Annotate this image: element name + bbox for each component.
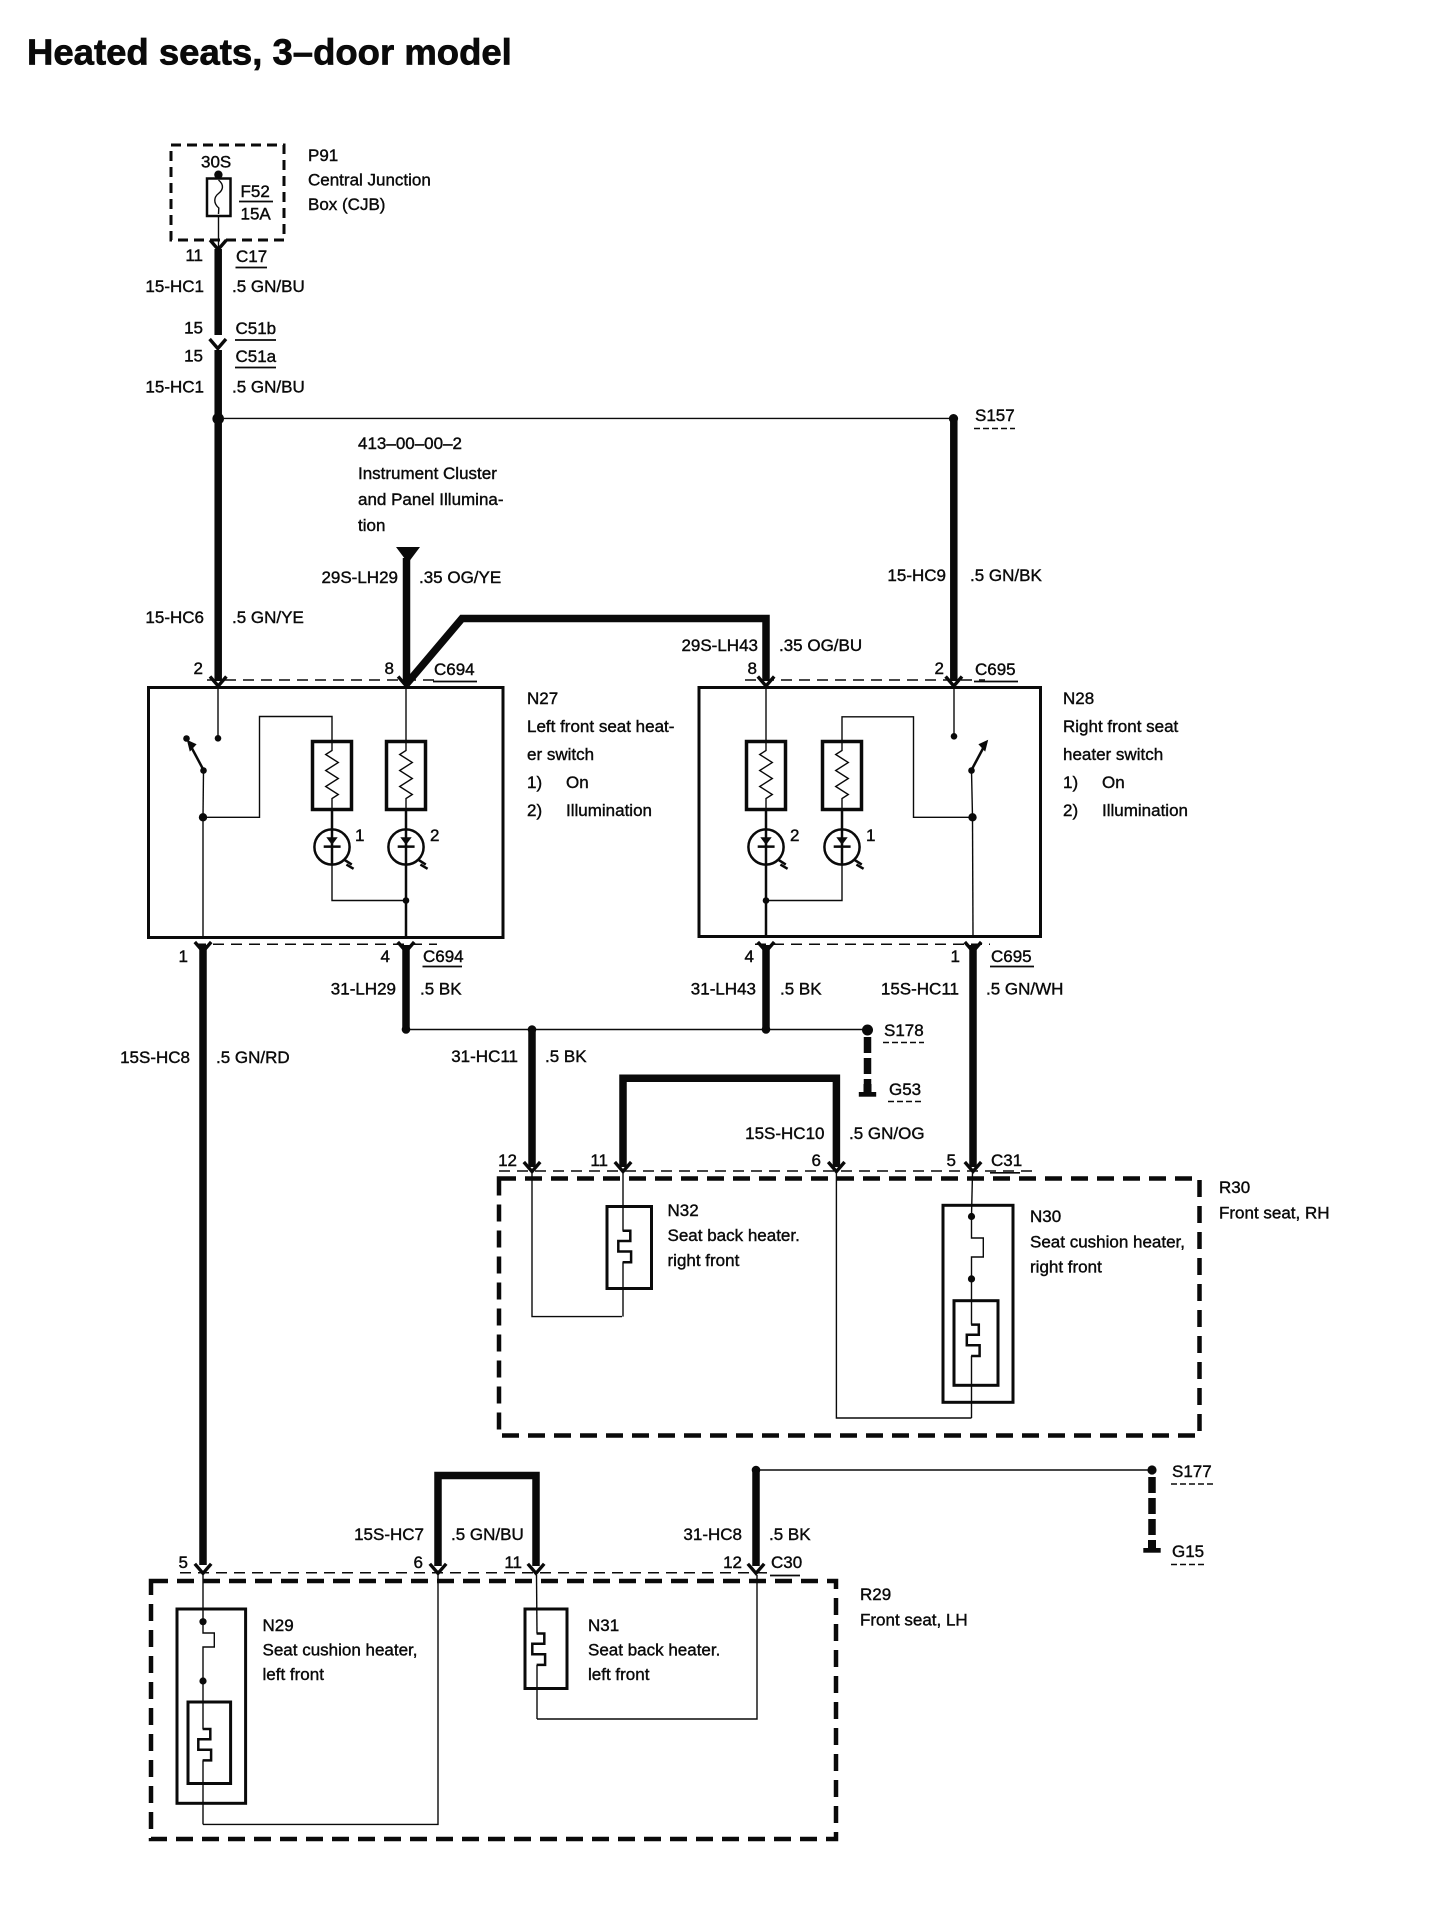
label 30S [201, 153, 231, 172]
svg-text:.5 GN/BU: .5 GN/BU [232, 277, 305, 296]
wire label 15-HC1 .5 GN/BU [145, 277, 304, 296]
junction node 31-HC8 [752, 1466, 761, 1475]
wire label 15S-HC10 .5 GN/OG [745, 1124, 924, 1143]
N27 internal wire switch to illumination resistor [203, 717, 332, 818]
svg-text:5: 5 [947, 1151, 956, 1170]
pin label 15 / connector C51a [184, 347, 277, 368]
svg-text:C694: C694 [423, 947, 464, 966]
connector C694 line (top of N27) [207, 679, 441, 681]
wire node line to S177 [756, 1469, 1148, 1471]
svg-text:.5 GN/BK: .5 GN/BK [970, 566, 1042, 585]
svg-text:2): 2) [1063, 801, 1078, 820]
N27 indicator lamp 2 [388, 829, 427, 868]
wire N29 to C30 pin 6 [203, 1575, 438, 1824]
svg-text:Front seat, RH: Front seat, RH [1219, 1204, 1330, 1223]
junction node below N28 pin 4 [762, 1025, 771, 1034]
N28 indicator lamp 1 [824, 829, 863, 868]
pin label 5 [179, 1553, 188, 1572]
wire 29S-LH43 (branch to N28 pin 8) [407, 619, 767, 685]
connector C30 pin 11 arrow [528, 1564, 544, 1574]
svg-text:31-HC8: 31-HC8 [683, 1525, 742, 1544]
connector label C17 [236, 247, 268, 268]
splice S157 [949, 406, 1015, 429]
connector label C695 [990, 947, 1034, 967]
N30 text label [1030, 1207, 1185, 1277]
svg-text:N28: N28 [1063, 689, 1094, 708]
N31 text label [588, 1616, 720, 1684]
svg-text:15S-HC7: 15S-HC7 [354, 1525, 424, 1544]
wire 15-HC1 (C51a to splice) [214, 350, 222, 418]
svg-text:Right front seat: Right front seat [1063, 717, 1179, 736]
svg-text:Front seat, LH: Front seat, LH [860, 1611, 968, 1630]
svg-text:.5 GN/YE: .5 GN/YE [232, 608, 304, 627]
svg-text:On: On [566, 773, 589, 792]
svg-text:1): 1) [527, 773, 542, 792]
N28 wire resistor to lamp 2 [765, 810, 768, 865]
svg-text:15A: 15A [241, 205, 272, 224]
wire N31 to C30 pin 12 [537, 1575, 757, 1719]
N27 text label [527, 689, 674, 820]
connector C694 line (bottom of N27) [195, 943, 437, 945]
seat cushion heater right front N30 [943, 1205, 1013, 1418]
svg-text:.5 BK: .5 BK [769, 1525, 811, 1544]
junction node [212, 413, 224, 425]
pin label 11 [590, 1151, 608, 1170]
N27 wire lamp 1 to junction [332, 865, 406, 901]
svg-text:N29: N29 [263, 1616, 294, 1635]
wire 15S-HC11 (N28 pin 1 to C31 pin 5) [969, 945, 977, 1167]
svg-text:.5 GN/WH: .5 GN/WH [986, 980, 1063, 999]
svg-text:2: 2 [790, 826, 799, 845]
wire label 29S-LH29 .35 OG/YE [321, 568, 501, 587]
svg-text:Seat cushion heater,: Seat cushion heater, [263, 1641, 418, 1660]
pin label 8 [748, 659, 757, 678]
svg-text:N30: N30 [1030, 1207, 1061, 1226]
connector C694 pin 1 arrow [195, 942, 211, 952]
svg-text:G53: G53 [889, 1080, 921, 1099]
splice S177 [1147, 1462, 1213, 1484]
off-page connector arrow from instrument cluster [396, 547, 420, 563]
connector label C30 [770, 1553, 802, 1576]
svg-text:and Panel Illumina-: and Panel Illumina- [358, 490, 504, 509]
svg-text:15S-HC10: 15S-HC10 [745, 1124, 824, 1143]
wire 31-HC11 (splice to C31 pin 12) [528, 1030, 536, 1168]
N29 text label [263, 1616, 418, 1684]
wire C31 pin 5 to N30 [972, 1173, 973, 1216]
svg-text:F52: F52 [241, 182, 270, 201]
wire label 31-HC11 .5 BK [451, 1047, 587, 1066]
R30 text label [1219, 1178, 1330, 1223]
wire S177 to ground (dashed) [1148, 1477, 1156, 1540]
svg-text:4: 4 [745, 947, 754, 966]
svg-text:1: 1 [179, 947, 188, 966]
wire label 15S-HC7 .5 GN/BU [354, 1525, 524, 1544]
connector C695 line (top of N28) [745, 679, 985, 681]
svg-text:right front: right front [1030, 1258, 1102, 1277]
connector C695 pin 8 arrow [758, 677, 774, 687]
connector C695 pin 2 arrow [946, 677, 962, 687]
N28 indicator lamp 2 [748, 829, 787, 868]
wire S178 to ground (dashed) [864, 1037, 872, 1084]
svg-text:30S: 30S [201, 153, 231, 172]
connector C31 pin 11 arrow [615, 1162, 631, 1172]
wire label 15S-HC8 .5 GN/RD [120, 1048, 290, 1067]
wire 15S-HC8 (N27 pin 1 to C30 pin 5) [199, 945, 207, 1565]
connector C694 pin 2 arrow [210, 677, 226, 687]
connector C30 line [180, 1572, 768, 1574]
wire node line to S157 [224, 417, 949, 419]
svg-text:C51b: C51b [236, 319, 277, 338]
svg-text:N31: N31 [588, 1616, 619, 1635]
connector C30 pin 6 arrow [430, 1564, 446, 1574]
svg-text:Left front seat heat-: Left front seat heat- [527, 717, 674, 736]
wire label 29S-LH43 .35 OG/BU [681, 636, 862, 655]
svg-text:1): 1) [1063, 773, 1078, 792]
N28 lamp junction node [763, 897, 770, 904]
wire 15S-HC7 (C30 pin 6 to pin 11) [438, 1476, 536, 1567]
P91 CJB text label [308, 146, 431, 214]
svg-text:2): 2) [527, 801, 542, 820]
svg-text:.5 GN/OG: .5 GN/OG [849, 1124, 925, 1143]
svg-text:31-LH29: 31-LH29 [331, 980, 396, 999]
svg-text:31-LH43: 31-LH43 [691, 980, 756, 999]
svg-text:P91: P91 [308, 146, 338, 165]
svg-text:On: On [1102, 773, 1125, 792]
title [27, 32, 512, 73]
pin label 6 [414, 1553, 423, 1572]
svg-text:1: 1 [355, 826, 364, 845]
pin label 5 [947, 1151, 956, 1170]
svg-text:.5 BK: .5 BK [780, 980, 822, 999]
svg-text:.5 GN/BU: .5 GN/BU [232, 378, 305, 397]
wire C31 pin 12 to N32 [532, 1173, 622, 1317]
connector C31 pin 5 arrow [965, 1162, 981, 1172]
svg-text:C31: C31 [991, 1151, 1022, 1170]
connector C30 pin 12 arrow [748, 1564, 764, 1574]
N28 wire lamp 2 to pin 4 [765, 865, 768, 937]
N27 wire lamp 2 to pin 4 [405, 865, 408, 937]
lamp label 1 [355, 826, 364, 845]
svg-text:2: 2 [194, 659, 203, 678]
svg-text:413–00–00–2: 413–00–00–2 [358, 434, 462, 453]
svg-text:S178: S178 [884, 1021, 924, 1040]
svg-text:C51a: C51a [236, 347, 277, 366]
front seat LH box R29 (dashed) [151, 1581, 836, 1839]
N27 pin 8 internal wire [405, 687, 407, 742]
N28 pin 8 internal wire [765, 687, 767, 742]
svg-text:12: 12 [498, 1151, 517, 1170]
wire C31 pin 6 to N30 [836, 1173, 971, 1418]
R29 text label [860, 1585, 968, 1630]
svg-text:31-HC11: 31-HC11 [451, 1047, 518, 1066]
svg-text:S157: S157 [975, 406, 1015, 425]
svg-text:Box (CJB): Box (CJB) [308, 195, 385, 214]
svg-text:.5 GN/BU: .5 GN/BU [451, 1525, 524, 1544]
svg-text:S177: S177 [1172, 1462, 1212, 1481]
svg-text:left front: left front [588, 1665, 650, 1684]
svg-text:15S-HC8: 15S-HC8 [120, 1048, 190, 1067]
svg-text:11: 11 [185, 246, 203, 265]
connector C31 pin 6 arrow [828, 1162, 844, 1172]
svg-text:8: 8 [385, 659, 394, 678]
connector C695 pin 1 arrow [965, 942, 981, 952]
svg-text:1: 1 [951, 947, 960, 966]
connector label C694 [423, 947, 464, 967]
N27 switch [183, 735, 207, 817]
connector C31 line [499, 1170, 1034, 1172]
right front seat heater switch N28 box [699, 688, 1041, 937]
wire C31 pin 11 to N32 [622, 1173, 624, 1231]
connector C17 pin 11 arrow [210, 240, 226, 250]
wire label 15-HC9 .5 GN/BK [887, 566, 1042, 585]
svg-text:.35 OG/YE: .35 OG/YE [419, 568, 501, 587]
svg-text:12: 12 [723, 1553, 742, 1572]
N27 pin 2 internal stub [215, 687, 222, 742]
pin label 1 [951, 947, 960, 966]
svg-text:G15: G15 [1172, 1542, 1204, 1561]
pin label 4 [745, 947, 754, 966]
svg-text:15: 15 [184, 347, 203, 366]
junction node below N27 pin 4 [402, 1025, 411, 1034]
svg-text:1: 1 [866, 826, 875, 845]
N32 text label [668, 1201, 800, 1270]
pin label 6 [812, 1151, 821, 1170]
svg-text:R30: R30 [1219, 1178, 1250, 1197]
svg-text:6: 6 [414, 1553, 423, 1572]
svg-text:.5 BK: .5 BK [545, 1047, 587, 1066]
N28 switch [968, 740, 988, 817]
pin label 15 / connector C51b [184, 319, 276, 341]
wire 15-HC6 (splice to N27 pin 2) [214, 418, 222, 681]
N28 resistor (illumination) [823, 742, 862, 810]
pin label 11 [504, 1553, 522, 1572]
wire ground bus line to S178 [406, 1029, 863, 1031]
pin label 2 [194, 659, 203, 678]
svg-text:C17: C17 [236, 247, 267, 266]
N28 text label [1063, 689, 1188, 820]
svg-text:4: 4 [381, 947, 390, 966]
N27 lamp junction node [403, 897, 410, 904]
lamp label 2 [430, 826, 439, 845]
svg-text:29S-LH29: 29S-LH29 [321, 568, 398, 587]
wire 31-LH29 (N27 pin 4 to splice line) [402, 945, 410, 1030]
connector C51b/C51a inline arrow [210, 339, 226, 349]
N27 switch junction node [199, 813, 207, 821]
pin label 8 [385, 659, 394, 678]
svg-text:Illumination: Illumination [566, 801, 652, 820]
svg-text:C695: C695 [991, 947, 1032, 966]
svg-text:Seat back heater.: Seat back heater. [668, 1226, 800, 1245]
connector label C31 [990, 1151, 1022, 1173]
svg-text:heater switch: heater switch [1063, 745, 1163, 764]
svg-text:11: 11 [504, 1553, 522, 1572]
pin label 12 [498, 1151, 517, 1170]
svg-text:Illumination: Illumination [1102, 801, 1188, 820]
wire label 15-HC6 .5 GN/YE [145, 608, 303, 627]
lamp label 2 [790, 826, 799, 845]
svg-text:Seat back heater.: Seat back heater. [588, 1641, 720, 1660]
svg-text:.5 GN/RD: .5 GN/RD [216, 1048, 290, 1067]
svg-text:11: 11 [590, 1151, 608, 1170]
lamp label 1 [866, 826, 875, 845]
pin label 11 [185, 246, 203, 265]
connector label C694 [433, 660, 477, 682]
svg-text:right front: right front [668, 1251, 740, 1270]
svg-text:15-HC1: 15-HC1 [145, 277, 204, 296]
N28 internal wire junction to pin 1 [972, 817, 975, 936]
pin label 2 [935, 659, 944, 678]
svg-text:15-HC1: 15-HC1 [145, 378, 204, 397]
pin label 1 [179, 947, 188, 966]
pin label 12 [723, 1553, 742, 1572]
N27 resistor 1 (illumination) [313, 742, 352, 810]
seat back heater left front N31 [525, 1609, 567, 1719]
svg-text:15: 15 [184, 319, 203, 338]
connector C694 pin 8 arrow [398, 677, 414, 687]
svg-text:Central Junction: Central Junction [308, 171, 431, 190]
connector C30 pin 5 arrow [195, 1564, 211, 1574]
seat back heater right front N32 [607, 1207, 652, 1317]
svg-text:Seat cushion heater,: Seat cushion heater, [1030, 1233, 1185, 1252]
instrument cluster reference text 413-00-00-2 [358, 434, 504, 535]
N27 indicator lamp 1 [314, 829, 353, 868]
splice S178 [862, 1021, 924, 1043]
wire label 31-LH29 .5 BK [331, 980, 462, 999]
N28 switch junction node [968, 813, 976, 821]
connector C695 line (bottom of N28) [755, 943, 990, 945]
wire label 31-HC8 .5 BK [683, 1525, 811, 1544]
wire 31-HC8 (S177 to C30 pin 12) [752, 1470, 760, 1566]
central junction box P91 (dashed box) [171, 145, 284, 240]
svg-text:R29: R29 [860, 1585, 891, 1604]
wire 31-LH43 (N28 pin 4 to splice line) [762, 945, 770, 1030]
svg-text:C694: C694 [434, 660, 475, 679]
wire 15S-HC10 (C31 pin 11 to pin 6) [623, 1078, 836, 1167]
svg-text:C695: C695 [975, 660, 1016, 679]
connector label C695 [974, 660, 1018, 682]
front seat RH box R30 (dashed) [499, 1179, 1200, 1436]
fuse F52 15A [207, 171, 231, 248]
wire 29S-LH29 (to N27 pin 8) [403, 558, 411, 681]
svg-text:15-HC9: 15-HC9 [887, 566, 946, 585]
wire 15-HC1 (fuse to C51b) [214, 249, 222, 335]
fuse value label F52 / 15A [239, 182, 273, 224]
svg-text:.35 OG/BU: .35 OG/BU [779, 636, 862, 655]
connector C694 pin 4 arrow [398, 942, 414, 952]
wire label 15-HC1 .5 GN/BU [145, 378, 304, 397]
wire C30 pin 11 to N31 [536, 1575, 539, 1634]
N27 internal wire junction to pin 1 [202, 817, 204, 936]
svg-text:29S-LH43: 29S-LH43 [681, 636, 758, 655]
left front seat heater switch N27 box [149, 688, 504, 938]
N28 pin 2 internal stub [951, 687, 958, 740]
svg-text:Heated seats, 3–door model: Heated seats, 3–door model [27, 32, 512, 73]
connector C695 pin 4 arrow [758, 942, 774, 952]
ground G53 [859, 1080, 921, 1102]
N27 resistor 2 (heater control) [387, 742, 426, 810]
svg-text:N27: N27 [527, 689, 558, 708]
svg-text:tion: tion [358, 516, 385, 535]
svg-text:15S-HC11: 15S-HC11 [881, 980, 959, 999]
ground G15 [1143, 1540, 1205, 1565]
seat cushion heater left front N29 [177, 1609, 246, 1824]
svg-text:2: 2 [935, 659, 944, 678]
N28 wire resistor to lamp 1 [841, 810, 844, 865]
svg-text:er switch: er switch [527, 745, 594, 764]
wire label 31-LH43 .5 BK [691, 980, 822, 999]
N28 resistor (heater control) [747, 742, 786, 810]
wire label 15S-HC11 .5 GN/WH [881, 980, 1064, 999]
svg-text:2: 2 [430, 826, 439, 845]
svg-text:N32: N32 [668, 1201, 699, 1220]
junction node 31-HC11 [528, 1025, 537, 1034]
wire 15-HC9 (S157 to N28 pin 2) [950, 421, 958, 681]
pin label 4 [381, 947, 390, 966]
svg-text:left front: left front [263, 1665, 325, 1684]
svg-text:C30: C30 [771, 1553, 802, 1572]
N28 wire lamp 1 to junction [766, 865, 842, 901]
svg-text:5: 5 [179, 1553, 188, 1572]
N27 wire resistor 1 to lamp 1 [331, 810, 334, 865]
N28 internal wire switch to illumination resistor [842, 717, 973, 818]
N27 wire resistor 2 to lamp 2 [405, 810, 408, 865]
svg-text:Instrument Cluster: Instrument Cluster [358, 464, 497, 483]
svg-text:8: 8 [748, 659, 757, 678]
wire C30 pin 5 to N29 [202, 1575, 204, 1622]
svg-text:15-HC6: 15-HC6 [145, 608, 204, 627]
svg-text:.5 BK: .5 BK [420, 980, 462, 999]
connector C31 pin 12 arrow [524, 1162, 540, 1172]
svg-text:6: 6 [812, 1151, 821, 1170]
